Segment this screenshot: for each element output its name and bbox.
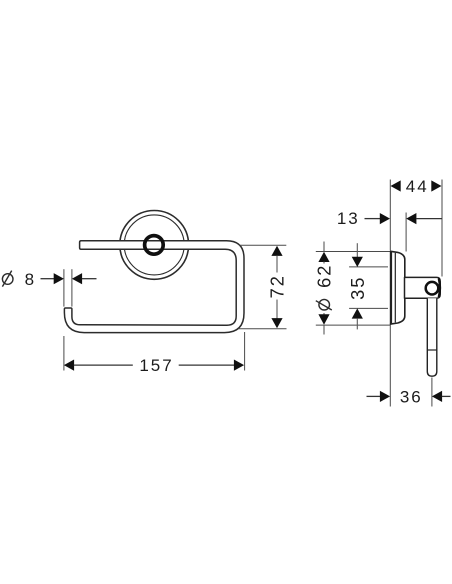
svg-text:13: 13 [337, 209, 360, 228]
svg-text:44: 44 [406, 177, 429, 196]
svg-text:72: 72 [268, 274, 288, 298]
svg-text:62: 62 [315, 264, 335, 288]
svg-text:157: 157 [139, 356, 173, 375]
svg-text:8: 8 [25, 270, 36, 289]
svg-text:35: 35 [348, 276, 368, 300]
svg-text:36: 36 [400, 387, 423, 406]
